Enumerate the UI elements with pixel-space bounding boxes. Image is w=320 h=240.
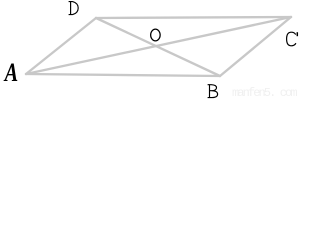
side BA (26, 74, 220, 76)
side AD (26, 18, 96, 74)
vertex label A (3, 59, 18, 88)
svg-text:manfen5. com: manfen5. com (232, 86, 297, 99)
diagonal DB (96, 18, 220, 76)
point label O (151, 29, 161, 41)
vertex label C (287, 32, 298, 46)
vertex label D (69, 2, 79, 15)
svg-text:A: A (3, 59, 18, 88)
side CB (220, 17, 291, 76)
vertex label B (208, 85, 218, 98)
diagonal AC (26, 17, 291, 74)
side DC (96, 17, 291, 18)
